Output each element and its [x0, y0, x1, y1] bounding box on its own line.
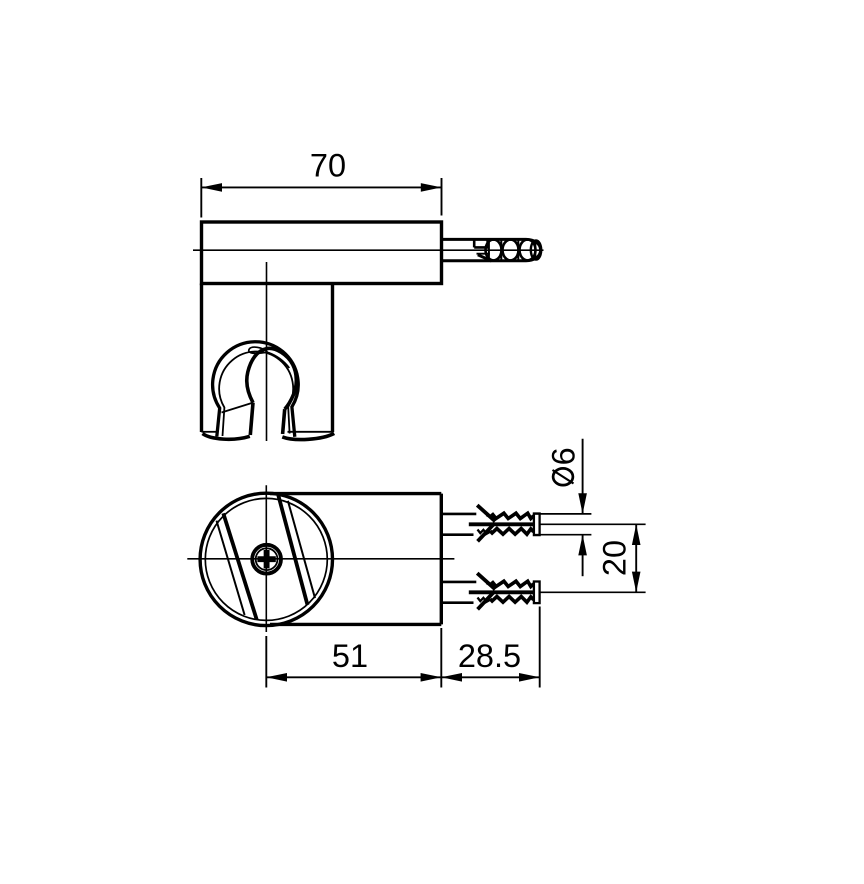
- dimension Ø6 upper line segment: [582, 439, 584, 514]
- plug top fin thin: [486, 583, 494, 587]
- screw thread ring 1: [486, 240, 502, 261]
- dimension 70: left extension line: [200, 178, 202, 218]
- bracket top bar outline: [202, 222, 442, 284]
- plug top fin thin: [486, 515, 494, 519]
- dimension 51/28.5 middle extension line: [440, 628, 442, 688]
- holder keyhole opening (thick arc): [247, 348, 296, 409]
- plug shaft upper line: [441, 581, 476, 584]
- top view vertical centerline: [265, 485, 267, 632]
- plug screw core bar: [469, 522, 534, 526]
- dimension Ø6 up arrowhead: [578, 535, 587, 556]
- plug bottom fin thin: [484, 599, 492, 603]
- body circle inner thin: [205, 498, 327, 620]
- plug bottom tooth mark: [478, 530, 487, 534]
- bracket bottom back edge left segment: [202, 431, 218, 433]
- horizontal centerline of screw axis: [193, 249, 544, 251]
- top view horizontal centerline: [187, 558, 454, 560]
- dimension 70: dimension line: [201, 186, 441, 188]
- screw thread ring 2: [503, 240, 519, 261]
- dimension Ø6 lower line segment: [582, 535, 584, 577]
- dimension 28.5 right extension line: [539, 607, 541, 688]
- dimension 70: right arrowhead: [421, 183, 442, 192]
- plug body top sawtooth: [492, 581, 534, 586]
- screw shaft and thread envelope: [441, 239, 540, 260]
- screw thread crest line 2: [517, 240, 519, 260]
- dimension 70: left arrowhead: [201, 183, 222, 192]
- screw thread mid line: [477, 253, 490, 255]
- slot left band thin edge: [217, 521, 245, 615]
- slot right band thin edge: [288, 501, 315, 598]
- screw head phillips cross horizontal: [257, 556, 275, 562]
- svg-text:70: 70: [310, 148, 346, 184]
- svg-text:6: 6: [546, 447, 582, 465]
- dimension Ø6 value label: [546, 447, 582, 485]
- holder inner surface slant line: [222, 403, 254, 413]
- dimension 20 up arrowhead: [632, 524, 641, 545]
- bracket bottom back edge right segment: [288, 431, 333, 433]
- screw head inner circle: [256, 548, 278, 570]
- svg-text:28.5: 28.5: [458, 638, 521, 674]
- plug bottom fin thick: [478, 591, 495, 609]
- plug bottom fin thin: [484, 531, 492, 535]
- dimension 28.5 left arrowhead: [441, 673, 462, 682]
- dimension Ø6 upper extension line: [535, 513, 591, 515]
- dimension 51 left arrowhead: [266, 673, 287, 682]
- dimension 20 down arrowhead: [632, 572, 641, 593]
- plug bottom tooth mark: [478, 598, 487, 602]
- dimension 51 right arrowhead: [421, 673, 442, 682]
- dimension 28.5 right arrowhead: [519, 673, 540, 682]
- body rectangle right edge: [440, 494, 443, 625]
- holder outer contour inner offset line: [219, 352, 293, 436]
- screw thread crest line 1: [500, 240, 502, 260]
- plug bottom fin thick: [478, 523, 495, 541]
- svg-text:51: 51: [332, 638, 368, 674]
- holder keyhole right slot leg: [283, 409, 285, 434]
- lower wall plug: [441, 573, 645, 609]
- screw thread ring 4: [531, 240, 541, 259]
- plug centerline: [540, 591, 646, 593]
- screw thread run-out notch step: [474, 239, 487, 247]
- plug top fin thick: [477, 573, 495, 589]
- holder keyhole left slot leg: [250, 403, 253, 435]
- plug screw core bar: [469, 590, 534, 594]
- dimension 70: right extension line: [441, 178, 443, 216]
- plug shaft lower line: [441, 533, 473, 536]
- body rectangle top edge: [270, 492, 441, 495]
- body circle outer: [200, 493, 332, 625]
- dimension Ø6 lower extension line: [535, 534, 591, 536]
- vertical centerline of holder: [266, 262, 268, 441]
- upper wall plug: [441, 505, 645, 541]
- body rectangle bottom edge: [270, 623, 441, 626]
- dimension 51 line: [266, 676, 441, 678]
- dimension 28.5 line: [441, 676, 539, 678]
- plug body bottom sawtooth: [491, 597, 534, 603]
- plug collar ring: [534, 582, 540, 604]
- holder top lip swirl: [249, 347, 268, 353]
- slot right band thick edge: [278, 495, 307, 605]
- bracket lower body left edge: [200, 284, 203, 433]
- dimension Ø6 down arrowhead: [578, 493, 587, 514]
- plug shaft lower line: [441, 601, 473, 604]
- screw head phillips cross vertical: [264, 550, 270, 568]
- screw thread run-out diagonal: [478, 255, 492, 261]
- bracket bottom front edge right curve: [282, 433, 334, 439]
- screw thread crest line 3: [534, 240, 536, 260]
- plug body top sawtooth: [492, 513, 534, 518]
- bracket bottom front edge left curve: [203, 434, 250, 440]
- svg-text:20: 20: [597, 540, 633, 576]
- plug top fin thick: [477, 505, 495, 521]
- screw thread run-out notch vertical: [473, 239, 476, 247]
- plug body bottom sawtooth: [491, 529, 534, 535]
- bracket lower body right edge: [331, 284, 334, 433]
- dimension 20 line: [635, 524, 637, 592]
- dimension 51 left extension line: [265, 636, 267, 688]
- plug shaft upper line: [441, 513, 476, 516]
- plug collar ring: [534, 514, 540, 536]
- screw thread ring 3: [520, 240, 536, 261]
- screw thread crest line 0: [488, 240, 490, 260]
- holder far-side hole edge thin arc: [268, 353, 289, 368]
- holder outer contour (omega): [213, 342, 299, 437]
- slot left band thick edge: [223, 513, 256, 619]
- plug centerline: [540, 523, 646, 525]
- screw head outer circle: [252, 545, 281, 574]
